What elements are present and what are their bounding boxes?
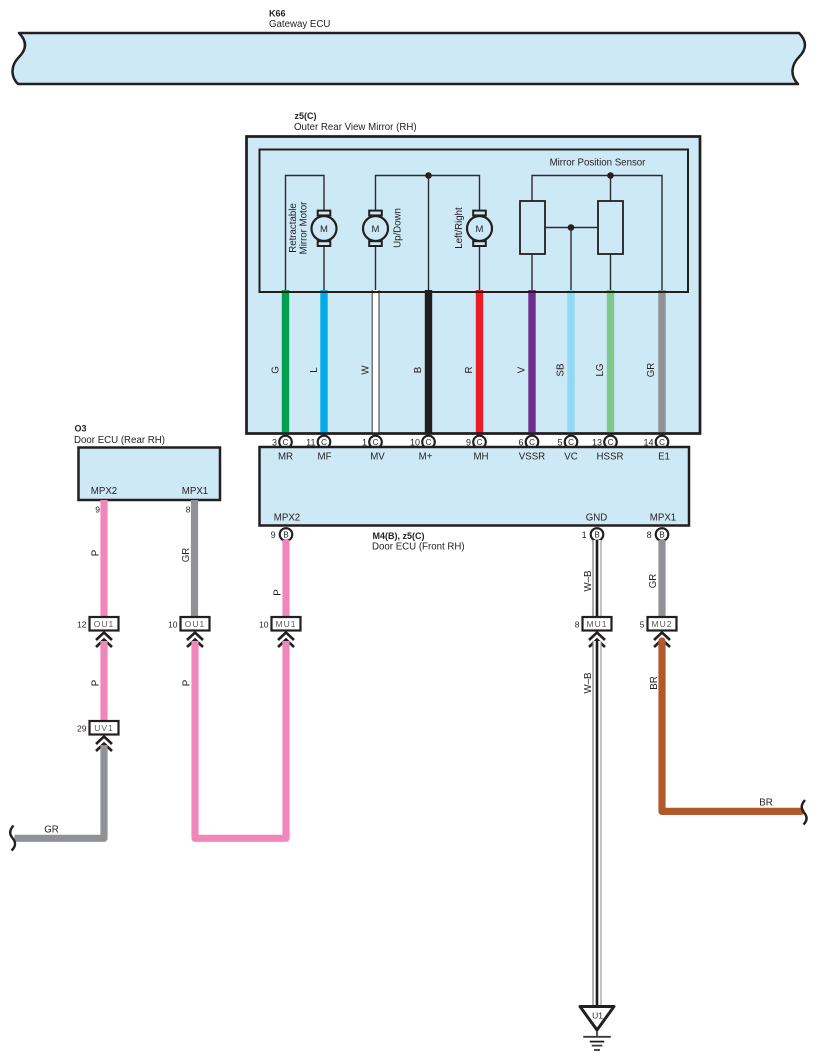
svg-text:P: P [91,550,102,556]
svg-text:C: C [608,438,614,447]
wire P OU1-12 to UV1 [100,641,107,721]
svg-text:Retractable: Retractable [288,203,299,253]
chevron MU1-8 [589,633,605,648]
connector MU1 pin 10 [259,617,300,631]
svg-text:8: 8 [186,505,191,515]
wire G [282,290,289,434]
svg-text:O3: O3 [75,424,87,434]
svg-text:B: B [413,367,424,373]
svg-text:MF: MF [318,452,332,463]
svg-text:BR: BR [759,798,772,809]
svg-text:GR: GR [181,548,192,563]
svg-text:B: B [659,530,664,539]
svg-text:C: C [568,438,574,447]
svg-text:V: V [517,366,528,373]
pin 1 GND [582,528,604,541]
Gateway ECU band K66 [12,9,805,85]
svg-text:MPX1: MPX1 [182,486,208,497]
junction dot M+ rail [425,172,432,179]
svg-text:Up/Down: Up/Down [393,208,404,248]
left/right motor M [467,211,492,246]
connector MU2 pin 5 [640,617,677,631]
pin 11 MF [306,436,330,449]
svg-text:C: C [321,438,327,447]
junction dot sensor rail [607,172,614,179]
svg-text:8: 8 [575,620,580,630]
Door ECU (Front RH) connector box [260,447,690,526]
svg-text:MR: MR [278,452,293,463]
ground point U1 [580,1007,614,1031]
svg-text:MH: MH [473,452,488,463]
svg-text:VSSR: VSSR [519,452,545,463]
svg-text:B: B [594,530,599,539]
wire sensor rail VSSR to E1 [532,176,662,293]
Outer Rear View Mirror (RH) box z5(C) [247,111,701,434]
wire sensor element 2 to HSSR [610,254,612,292]
svg-text:8: 8 [647,530,652,540]
connector MU1 pin 8 [575,617,612,631]
pin 9 MH [466,436,486,449]
pin 5 VC [557,436,577,449]
outer mirror box bottom edge overlay [247,137,701,434]
wire LG [607,290,614,434]
sensor element 1 [520,201,545,254]
chevron UV1-29 [96,737,112,752]
connector OU1 pin 12 [77,617,118,631]
svg-text:BR: BR [649,676,660,689]
inner component box [260,150,689,293]
svg-text:VC: VC [564,452,577,463]
chevron MU1-10 [278,633,294,648]
svg-text:W–B: W–B [583,571,594,592]
svg-text:MU1: MU1 [276,619,297,629]
wire R [476,290,483,434]
svg-text:G: G [271,366,282,374]
svg-text:M: M [372,224,380,235]
up/down motor M [363,211,388,246]
pin 14 E1 [643,436,668,449]
wire rail to sensor element 2 [610,176,612,202]
wire GR [658,290,665,434]
svg-text:MV: MV [370,452,385,463]
svg-text:MPX2: MPX2 [91,486,117,497]
wire M+ drop [428,176,430,293]
svg-text:9: 9 [271,530,276,540]
label Retractable Mirror Motor [288,201,310,255]
svg-text:E1: E1 [658,452,670,463]
svg-text:C: C [659,438,665,447]
svg-text:Mirror Motor: Mirror Motor [299,201,310,255]
svg-text:M+: M+ [419,452,433,463]
sensor element 2 [598,201,623,254]
wire left/right motor to MH [479,247,481,292]
svg-text:K66: K66 [269,9,286,19]
svg-text:C: C [373,438,379,447]
svg-text:OU1: OU1 [185,619,205,629]
svg-text:10: 10 [168,620,178,630]
svg-text:P: P [273,589,284,595]
wire P from O3 pin 9 [100,500,107,617]
svg-text:Left/Right: Left/Right [454,207,465,249]
Door ECU (Rear RH) box O3 [74,424,220,501]
svg-text:GR: GR [646,363,657,378]
connector OU1 pin 10 [168,617,209,631]
svg-text:10: 10 [259,620,269,630]
svg-text:MU1: MU1 [587,619,608,629]
chevron OU1-10 [187,633,203,648]
svg-text:GR: GR [648,574,659,589]
svg-text:9: 9 [95,505,100,515]
svg-text:MPX2: MPX2 [274,513,300,524]
svg-text:HSSR: HSSR [597,452,624,463]
svg-text:C: C [426,438,432,447]
wire up/down motor to MV [375,247,377,292]
wire L [320,290,327,434]
retractable mirror motor M [312,211,337,246]
wire W [372,290,380,434]
pin 6 VSSR [518,436,538,449]
svg-text:M: M [476,224,484,235]
svg-text:z5(C): z5(C) [295,111,317,121]
wire V [528,290,535,434]
svg-text:Door ECU (Front RH): Door ECU (Front RH) [372,542,465,553]
connector UV1 pin 29 [77,721,118,735]
svg-text:1: 1 [582,530,587,540]
continuation squiggle right [802,800,807,825]
wire top rail M+ motors [376,176,480,211]
svg-text:29: 29 [77,724,87,734]
junction dot wiper [568,224,575,231]
svg-text:U1: U1 [592,1011,603,1021]
svg-text:C: C [283,438,289,447]
svg-text:GND: GND [586,513,608,524]
wire BR MU2-5 to right [662,641,801,811]
wire B [425,290,432,434]
wire W-B from GND pin [592,540,601,617]
pin 13 HSSR [592,436,617,449]
svg-text:SB: SB [556,364,567,377]
svg-text:12: 12 [77,620,87,630]
pin 10 Mplus [410,436,435,449]
svg-text:Gateway ECU: Gateway ECU [269,19,330,30]
svg-text:Door ECU (Rear RH): Door ECU (Rear RH) [74,435,165,446]
svg-text:5: 5 [640,620,645,630]
svg-text:UV1: UV1 [94,723,114,733]
svg-text:OU1: OU1 [94,619,114,629]
continuation squiggle left [10,826,15,851]
wire SB [567,290,574,434]
svg-text:C: C [477,438,483,447]
wire W-B MU1-8 to ground [592,641,601,1006]
label M4(B), z5(C) Door ECU (Front RH) [372,531,465,553]
svg-text:LG: LG [595,364,606,377]
svg-text:B: B [283,530,288,539]
svg-text:L: L [309,367,320,373]
svg-text:GR: GR [44,825,59,836]
wire wiper link [545,227,598,229]
svg-text:M4(B), z5(C): M4(B), z5(C) [373,531,425,541]
svg-text:Mirror Position Sensor: Mirror Position Sensor [550,158,647,169]
wire GR from UV1 to left [15,745,105,838]
wire wiper to VC [570,228,572,293]
wire MR to retract motor [286,176,325,293]
pin 3 MR [272,436,292,449]
svg-text:W: W [361,365,372,375]
svg-text:MU2: MU2 [652,619,673,629]
pin 9 MPX2 (front ECU) [271,528,293,541]
svg-text:MPX1: MPX1 [650,513,676,524]
svg-text:W–B: W–B [583,673,594,694]
wire retract motor to MF [323,247,325,292]
chevron MU2-5 [654,633,670,648]
wire P OU1-10 to MU1-10 [195,641,286,838]
wire GR from front ECU pin 8 [658,540,665,617]
wire GR from O3 pin 8 [191,500,198,617]
chevron OU1-12 [96,633,112,648]
ground symbol [583,1030,611,1050]
svg-text:P: P [182,680,193,686]
wire P from front ECU pin 9 [282,540,289,617]
svg-text:P: P [91,680,102,686]
svg-text:R: R [464,367,475,374]
svg-text:Outer Rear View Mirror (RH): Outer Rear View Mirror (RH) [294,122,417,133]
pin 1 MV [362,436,382,449]
svg-text:C: C [529,438,535,447]
pin 8 MPX1 (front ECU) [647,528,669,541]
wire sensor element 1 to VSSR [531,254,533,292]
svg-text:M: M [320,224,328,235]
